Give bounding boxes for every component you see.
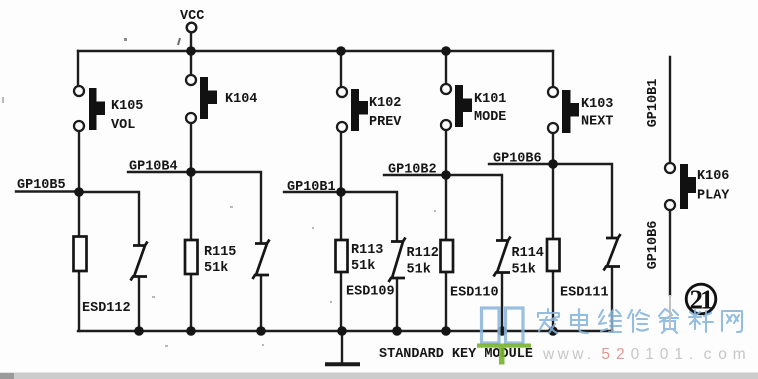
wire: branch node1 to ESD column	[79, 192, 139, 245]
svg-text:21: 21	[690, 285, 714, 315]
char zi	[659, 309, 678, 333]
wire: node1 down to box1	[78, 192, 80, 237]
resistor box (ESD110) col4	[441, 240, 454, 272]
wire: col1 bus to K105	[77, 51, 79, 86]
svg-text:51k: 51k	[407, 263, 431, 278]
char wang	[722, 311, 742, 332]
pushbutton K103	[548, 87, 579, 133]
resistor R115	[185, 240, 198, 274]
wire: node3 down to R113	[340, 192, 342, 240]
svg-text:ESD112: ESD112	[82, 301, 131, 316]
svg-text:K106: K106	[697, 169, 729, 184]
svg-text:NEXT: NEXT	[581, 115, 613, 130]
wire: branch node3 to Z3	[341, 192, 397, 241]
svg-text:GP10B5: GP10B5	[17, 178, 66, 193]
wire: GP10B2 label lead	[384, 174, 446, 176]
node: bus junction box5	[548, 326, 558, 336]
node: junction top bus K102	[336, 46, 346, 56]
wire: Z3 bottom to bus	[396, 280, 398, 332]
wire: bus corner to K103	[552, 51, 554, 87]
wire: bus to K102	[340, 51, 342, 87]
resistor R113	[336, 240, 348, 272]
scan speck top left	[124, 38, 127, 41]
svg-text:ESD110: ESD110	[450, 286, 499, 301]
wire: GP10B6 label lead	[489, 163, 553, 165]
char dian	[571, 309, 588, 333]
svg-text:GP10B2: GP10B2	[388, 163, 437, 178]
svg-text:51k: 51k	[204, 261, 228, 276]
node: VCC terminal	[187, 23, 197, 33]
wire: K101 to GP10B2 node	[445, 131, 447, 176]
svg-text:VCC: VCC	[180, 9, 204, 24]
resistor box (ESD111) col5	[547, 239, 560, 271]
svg-text:PLAY: PLAY	[697, 189, 730, 204]
resistor box (ESD112 network) col1	[74, 237, 87, 272]
node: bus junction Z3	[392, 326, 402, 336]
svg-text:GP10B6: GP10B6	[493, 152, 542, 167]
svg-text:R114: R114	[512, 246, 544, 261]
wire: bus to K104	[190, 51, 192, 75]
pushbutton K104	[186, 75, 217, 123]
node: junction top bus K101	[441, 46, 451, 56]
svg-text:K103: K103	[581, 97, 613, 112]
char wei	[599, 310, 621, 332]
node: junction top bus K104	[186, 46, 196, 56]
ESD Z symbol col2	[253, 240, 270, 280]
scan smudge below K106 wire	[669, 295, 671, 329]
wire: K106 to GP10B6 net	[669, 210, 671, 295]
wire: GP10B4 label lead	[128, 171, 191, 173]
watermark green logo	[477, 344, 531, 365]
wire: Z4 bottom to bus	[501, 274, 503, 331]
wire: K106 net from GP10B1	[669, 57, 671, 163]
wire: node2 down to R115	[190, 172, 192, 240]
svg-text:GP10B4: GP10B4	[129, 160, 178, 175]
wire: GP10B1 label lead	[284, 191, 341, 193]
svg-text:K104: K104	[225, 92, 257, 107]
pushbutton K106	[665, 163, 696, 210]
svg-text:GP10B1: GP10B1	[646, 79, 661, 128]
R114 Z symbol	[494, 237, 511, 277]
svg-text:ESD109: ESD109	[346, 285, 395, 300]
ground	[325, 362, 360, 366]
scan speck apostrophe	[178, 38, 180, 45]
scan artifact bottom bar	[0, 373, 758, 379]
node: bus junction R113 / ground	[337, 326, 347, 336]
svg-text:GP10B1: GP10B1	[287, 180, 336, 195]
wire: VCC stub	[190, 33, 192, 52]
scan specks	[2, 97, 436, 347]
svg-text:ESD111: ESD111	[560, 286, 609, 301]
wire: R113 to bottom bus	[340, 272, 342, 331]
pushbutton K102	[337, 87, 368, 132]
wire: ground stub	[341, 331, 343, 362]
svg-text:MODE: MODE	[474, 110, 506, 125]
pushbutton K101	[441, 84, 472, 130]
wire: branch node4 to Z4	[446, 175, 502, 240]
svg-text:R115: R115	[204, 245, 236, 260]
node: bus junction Z2	[256, 326, 266, 336]
wire: Z1 bottom to bus	[138, 279, 140, 332]
svg-text:STANDARD KEY MODULE: STANDARD KEY MODULE	[379, 347, 533, 362]
wire: top VCC bus	[78, 50, 553, 52]
watermark logo squares	[482, 308, 524, 343]
R112 Z symbol	[389, 238, 406, 283]
wire: bottom ground bus	[78, 330, 612, 332]
node: GP10B1 junction	[336, 187, 346, 197]
wire: box1 to bottom bus	[78, 271, 80, 331]
wire: R115 to bottom bus	[190, 274, 192, 331]
wire: box5 to bottom bus	[552, 271, 554, 331]
wire: K104 to GP10B4 node	[190, 124, 192, 173]
watermark chinese text (drawn strokes)	[538, 309, 742, 333]
wire: Z5 bottom to bus	[611, 268, 613, 332]
ESD Z symbol col5	[604, 234, 621, 271]
wire: K105 to GP10B5 node	[78, 132, 80, 193]
svg-text:51k: 51k	[512, 263, 536, 278]
wire: node4 down to box4	[445, 175, 447, 240]
svg-text:K105: K105	[111, 99, 143, 114]
wire: bus to K101	[445, 51, 447, 84]
node: GP10B5 junction	[74, 187, 84, 197]
svg-text:GP10B6: GP10B6	[646, 221, 661, 270]
svg-text:K102: K102	[369, 96, 401, 111]
svg-text:K101: K101	[474, 92, 506, 107]
wire: GP10B5 label lead	[16, 190, 79, 192]
char xiu	[628, 310, 649, 332]
node: bus junction box4	[441, 326, 451, 336]
wire: K103 to GP10B6 node	[552, 134, 554, 165]
wire: box4 to bottom bus	[445, 272, 447, 331]
wire: node5 down to box5	[552, 164, 554, 239]
ESD112 Z symbol	[131, 242, 148, 281]
char liao	[689, 310, 713, 332]
node: GP10B6 junction	[548, 159, 558, 169]
wire: K102 to GP10B1 node	[340, 133, 342, 193]
node: GP10B4 junction	[186, 167, 196, 177]
pushbutton K105	[74, 86, 105, 131]
wire: branch node5 to Z5	[553, 164, 612, 238]
svg-text:VOL: VOL	[111, 118, 135, 133]
badge circled 21	[686, 284, 716, 314]
node: GP10B2 junction	[441, 170, 451, 180]
svg-text:51k: 51k	[351, 259, 375, 274]
wire: Z2 bottom to bus	[260, 277, 262, 331]
svg-text:R112: R112	[407, 246, 439, 261]
svg-text:R113: R113	[351, 243, 383, 258]
svg-text:PREV: PREV	[369, 115, 402, 130]
node: bus junction R115	[186, 326, 196, 336]
char jia	[538, 309, 559, 333]
wire: branch node2 to Z2	[191, 172, 261, 243]
node: bus junction Z1	[134, 326, 144, 336]
node: bus junction Z4	[497, 326, 507, 336]
